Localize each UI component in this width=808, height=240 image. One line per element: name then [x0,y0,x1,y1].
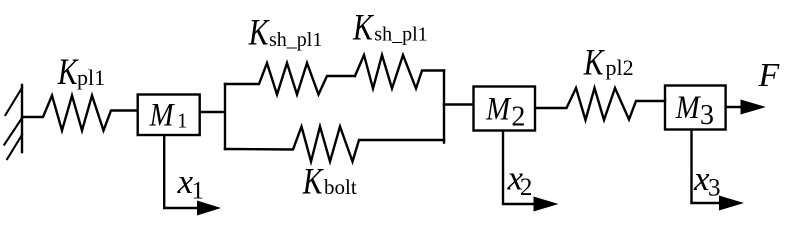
svg-text:pl2: pl2 [606,55,634,80]
svg-text:M: M [485,90,512,127]
displacement x1 arrowhead [197,201,221,216]
wire junction bar to M2 [444,103,473,105]
ground wall hatch 2 [4,118,22,146]
force F arrow line [726,106,744,108]
svg-text:2: 2 [520,174,533,201]
svg-text:M: M [149,96,176,133]
svg-text:2: 2 [511,101,525,132]
displacement x2 arrowhead [534,197,559,212]
spring Kpl1 [22,96,137,131]
mass M2 box [474,87,536,131]
svg-text:pl1: pl1 [77,65,105,90]
svg-text:K: K [248,13,270,54]
wire M1 to junction bar [200,111,224,113]
svg-text:bolt: bolt [324,175,357,199]
svg-text:F: F [758,57,781,94]
svg-text:sh_pl1: sh_pl1 [269,29,322,51]
displacement x3 arrowhead [719,196,744,211]
junction bar left [224,84,226,149]
svg-text:M: M [675,88,702,125]
force F arrowhead [741,100,767,115]
svg-text:1: 1 [192,178,205,205]
svg-text:K: K [57,52,79,93]
svg-text:K: K [352,7,374,48]
svg-text:3: 3 [700,100,714,131]
mass M3 box [665,86,726,130]
displacement x1 wire [164,136,199,208]
junction bar right [443,71,445,143]
svg-text:3: 3 [708,175,721,202]
displacement x3 wire [692,130,722,203]
ground wall hatch 3 [7,134,23,160]
svg-text:sh_pl1: sh_pl1 [374,24,427,46]
spring Kbolt (bottom branch) [225,127,444,162]
ground wall line [21,85,23,152]
mass M1 box [138,95,200,136]
spring Kpl2 [536,88,665,120]
spring Ksh_pl1 b (top branch) [355,55,444,89]
displacement x2 wire [503,131,536,204]
svg-text:K: K [302,161,324,202]
ground wall hatch 1 [5,87,23,116]
svg-text:K: K [583,42,605,83]
svg-text:1: 1 [177,109,188,133]
spring Ksh_pl1 a (top branch) [225,63,355,95]
